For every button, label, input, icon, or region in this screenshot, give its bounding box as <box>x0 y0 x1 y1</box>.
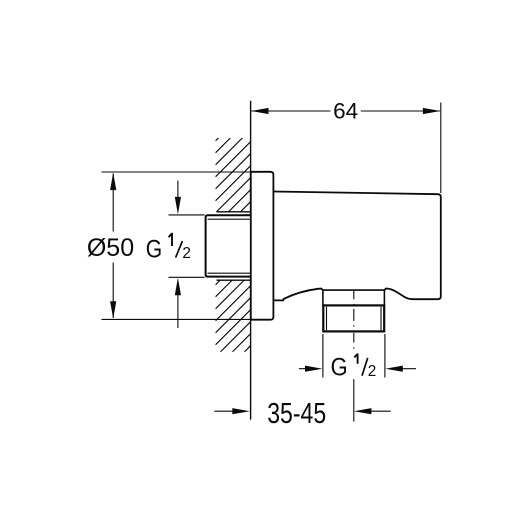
body outline upper/right <box>274 192 441 300</box>
dim G1/2 outlet extension left <box>322 334 324 378</box>
dim G1/2 outlet extension right <box>384 334 386 378</box>
body outline lower-left <box>274 289 323 301</box>
dim G1/2 inlet arrow line top <box>177 181 179 198</box>
outlet thread chamfer right <box>380 307 382 330</box>
inlet thread body G1/2 (behind wall) <box>206 215 251 276</box>
wall hole edge bottom <box>217 279 251 281</box>
dim G1/2 inlet extension bottom <box>169 276 205 278</box>
dim G1/2 outlet arrow left <box>299 368 306 370</box>
svg-text:Ø50: Ø50 <box>87 234 134 262</box>
flange (escutcheon) <box>251 172 274 320</box>
outlet collar right side <box>383 290 385 305</box>
svg-text:2: 2 <box>182 245 191 262</box>
outlet thread chamfer left <box>326 307 328 330</box>
dim 35-45 line left <box>214 410 233 412</box>
outlet collar top edge <box>323 289 385 291</box>
dim G1/2 inlet extension top <box>169 214 205 216</box>
outlet collar left side <box>322 290 324 305</box>
dim O50 extension top <box>102 171 251 173</box>
dim 64 arrow right <box>423 108 441 114</box>
svg-text:64: 64 <box>333 98 358 123</box>
svg-text:G: G <box>331 354 348 382</box>
dim O50 arrow down <box>110 301 116 319</box>
dim O50 line <box>112 174 114 232</box>
svg-text:2: 2 <box>368 363 377 380</box>
dim O50 extension bottom <box>102 318 251 320</box>
dim 35-45 line right <box>371 410 391 412</box>
dim 64 arrow left <box>251 108 269 114</box>
dim G1/2 inlet arrow line bottom <box>177 295 179 329</box>
wall surface line <box>250 101 252 420</box>
dim 64 line <box>252 110 331 112</box>
svg-text:G: G <box>146 236 162 264</box>
dim O50 arrow up <box>110 173 116 191</box>
inlet thread minor line bottom <box>208 272 251 274</box>
outlet thread G1/2 <box>323 305 384 331</box>
dim 64 extension line right <box>440 103 442 194</box>
dim G1/2 outlet arrow right <box>402 368 416 370</box>
inlet thread minor line top <box>208 218 251 220</box>
svg-text:35-45: 35-45 <box>267 398 326 430</box>
wall hole edge top <box>217 211 251 213</box>
outlet centerline <box>353 290 355 421</box>
